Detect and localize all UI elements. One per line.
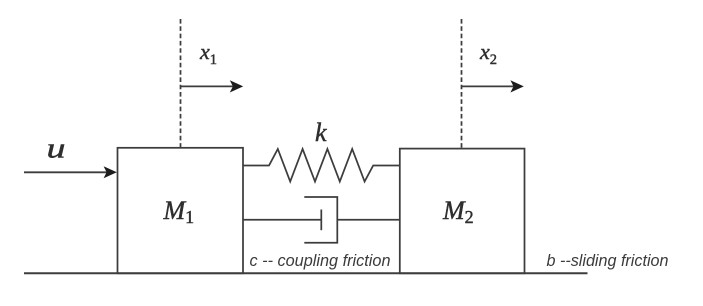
svg-text:k: k <box>315 118 327 147</box>
svg-text:b --sliding friction: b --sliding friction <box>547 252 669 270</box>
svg-text:M1: M1 <box>163 196 195 227</box>
svg-text:M2: M2 <box>442 196 474 227</box>
svg-text:c -- coupling friction: c -- coupling friction <box>250 252 391 270</box>
svg-text:u: u <box>47 133 66 165</box>
svg-text:x2: x2 <box>479 39 497 68</box>
svg-text:x1: x1 <box>199 39 217 68</box>
